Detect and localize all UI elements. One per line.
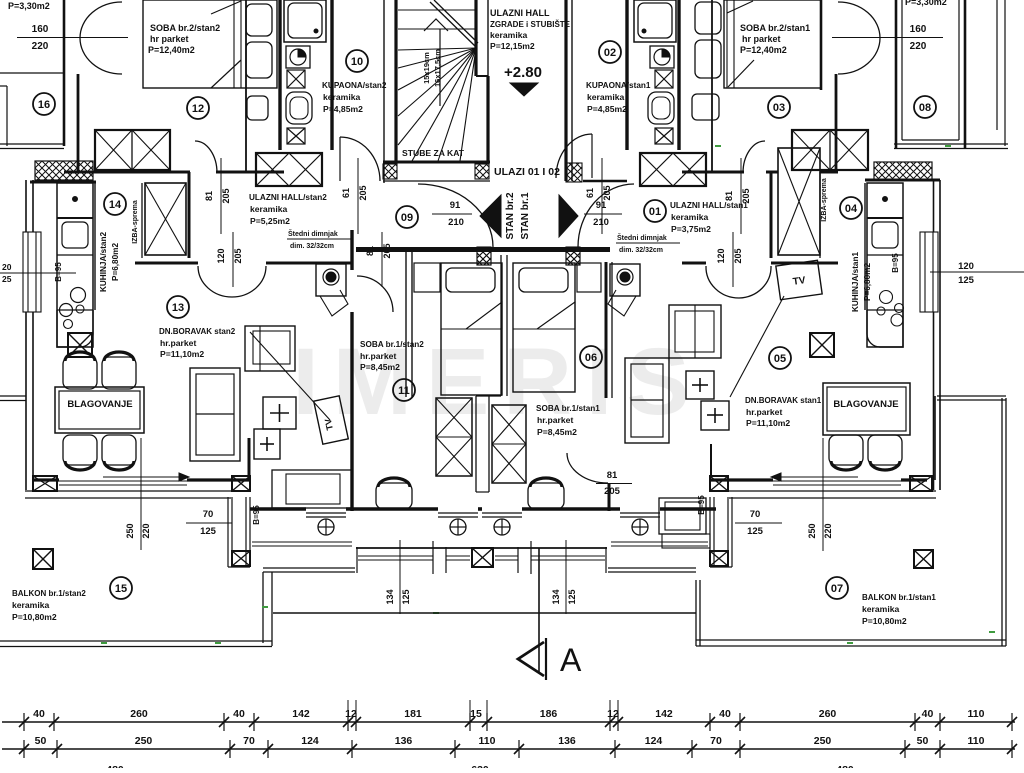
svg-text:20: 20 [2, 262, 12, 272]
svg-text:205: 205 [233, 248, 243, 263]
svg-text:250: 250 [125, 523, 135, 538]
svg-text:06: 06 [585, 352, 597, 364]
svg-text:keramika: keramika [250, 204, 287, 214]
svg-text:91: 91 [596, 200, 607, 211]
svg-text:40: 40 [33, 708, 45, 720]
svg-text:ULAZNI HALL/stan1: ULAZNI HALL/stan1 [670, 201, 748, 210]
svg-text:P=11,10m2: P=11,10m2 [160, 349, 204, 359]
svg-text:120: 120 [958, 261, 974, 272]
svg-text:P=10,80m2: P=10,80m2 [12, 612, 57, 622]
svg-text:40: 40 [922, 708, 934, 720]
svg-text:KUHINJA/stan2: KUHINJA/stan2 [99, 232, 108, 293]
svg-text:ULAZNI HALL: ULAZNI HALL [490, 8, 550, 18]
svg-text:dim. 32/32cm: dim. 32/32cm [290, 243, 334, 250]
svg-text:DN.BORAVAK stan2: DN.BORAVAK stan2 [159, 327, 236, 336]
svg-text:Štedni dimnjak: Štedni dimnjak [617, 233, 667, 242]
svg-text:KUHINJA/stan1: KUHINJA/stan1 [851, 252, 860, 313]
svg-text:205: 205 [358, 185, 368, 200]
svg-text:210: 210 [448, 217, 464, 228]
svg-text:15: 15 [470, 708, 482, 720]
svg-text:110: 110 [479, 735, 496, 747]
svg-text:hr.parket: hr.parket [160, 338, 196, 348]
svg-text:70: 70 [243, 735, 255, 747]
svg-text:15x19cm: 15x19cm [422, 52, 431, 84]
svg-text:250: 250 [135, 735, 153, 747]
svg-text:hr parket: hr parket [150, 34, 189, 44]
svg-text:B=95: B=95 [891, 253, 900, 273]
svg-text:SOBA br.2/stan2: SOBA br.2/stan2 [150, 23, 220, 33]
svg-text:125: 125 [958, 275, 975, 286]
svg-text:SOBA br.1/stan2: SOBA br.1/stan2 [360, 340, 424, 349]
svg-text:P=5,25m2: P=5,25m2 [250, 216, 290, 226]
svg-text:BALKON br.1/stan2: BALKON br.1/stan2 [12, 589, 86, 598]
svg-text:01: 01 [649, 206, 661, 218]
svg-text:91: 91 [450, 200, 461, 211]
svg-text:08: 08 [919, 102, 931, 114]
svg-text:134: 134 [385, 589, 395, 604]
svg-text:61: 61 [341, 188, 351, 198]
svg-text:61: 61 [585, 188, 595, 198]
svg-text:16x17,5cm: 16x17,5cm [433, 49, 442, 87]
svg-text:205: 205 [602, 185, 612, 200]
svg-text:181: 181 [404, 708, 422, 720]
svg-text:260: 260 [819, 708, 837, 720]
svg-text:250: 250 [807, 523, 817, 538]
svg-text:hr.parket: hr.parket [746, 407, 782, 417]
svg-text:P=6,80m2: P=6,80m2 [111, 243, 120, 281]
svg-text:40: 40 [719, 708, 731, 720]
svg-text:250: 250 [814, 735, 832, 747]
svg-text:STUBE ZA KAT: STUBE ZA KAT [402, 148, 465, 158]
svg-text:70: 70 [750, 509, 761, 520]
svg-text:P=8,45m2: P=8,45m2 [537, 427, 577, 437]
svg-text:09: 09 [401, 212, 413, 224]
svg-text:P=4,85m2: P=4,85m2 [587, 104, 627, 114]
svg-text:136: 136 [395, 735, 413, 747]
svg-text:124: 124 [645, 735, 663, 747]
svg-text:07: 07 [831, 583, 843, 595]
svg-text:12: 12 [192, 103, 204, 115]
svg-text:220: 220 [32, 41, 49, 52]
svg-text:50: 50 [917, 735, 929, 747]
svg-text:P=11,10m2: P=11,10m2 [746, 418, 790, 428]
svg-text:IMERIS: IMERIS [292, 329, 703, 435]
svg-text:186: 186 [540, 708, 558, 720]
svg-text:205: 205 [221, 188, 231, 203]
svg-text:P=12,15m2: P=12,15m2 [490, 41, 535, 51]
svg-text:205: 205 [733, 248, 743, 263]
svg-text:keramika: keramika [323, 92, 360, 102]
svg-text:125: 125 [747, 526, 764, 537]
svg-text:14: 14 [109, 199, 122, 211]
svg-text:P=3,75m2: P=3,75m2 [671, 224, 711, 234]
svg-text:134: 134 [551, 589, 561, 604]
svg-text:BLAGOVANJE: BLAGOVANJE [833, 399, 898, 410]
svg-text:IZBA-sprema: IZBA-sprema [821, 178, 828, 222]
svg-text:keramika: keramika [490, 30, 527, 40]
svg-text:13: 13 [172, 302, 184, 314]
svg-text:40: 40 [233, 708, 245, 720]
svg-text:03: 03 [773, 102, 785, 114]
svg-text:11: 11 [398, 385, 410, 397]
svg-text:P=4,85m2: P=4,85m2 [323, 104, 363, 114]
svg-text:P=12,40m2: P=12,40m2 [740, 45, 787, 55]
svg-text:124: 124 [301, 735, 319, 747]
svg-text:ULAZI 01 I 02: ULAZI 01 I 02 [494, 166, 560, 178]
svg-text:BLAGOVANJE: BLAGOVANJE [67, 399, 132, 410]
svg-text:110: 110 [968, 708, 985, 720]
svg-text:70: 70 [203, 509, 214, 520]
svg-text:keramika: keramika [587, 92, 624, 102]
svg-text:160: 160 [32, 24, 49, 35]
svg-text:B=95: B=95 [252, 505, 261, 525]
svg-text:B=95: B=95 [54, 262, 63, 282]
svg-text:120: 120 [716, 248, 726, 263]
svg-text:125: 125 [401, 589, 411, 604]
svg-text:hr.parket: hr.parket [537, 415, 573, 425]
svg-text:dim. 32/32cm: dim. 32/32cm [619, 247, 663, 254]
svg-text:630: 630 [471, 764, 489, 768]
svg-text:TV: TV [792, 275, 807, 288]
svg-text:81: 81 [204, 191, 214, 201]
svg-text:16: 16 [38, 99, 50, 111]
svg-text:10: 10 [351, 56, 363, 68]
svg-text:210: 210 [593, 217, 609, 228]
svg-text:110: 110 [968, 735, 985, 747]
svg-text:136: 136 [558, 735, 576, 747]
svg-text:keramika: keramika [671, 212, 708, 222]
svg-text:DN.BORAVAK stan1: DN.BORAVAK stan1 [745, 396, 822, 405]
svg-text:125: 125 [200, 526, 217, 537]
svg-text:STAN br.2: STAN br.2 [505, 192, 516, 239]
svg-text:480: 480 [836, 764, 854, 768]
svg-text:P=6,80m2: P=6,80m2 [863, 263, 872, 301]
svg-text:120: 120 [216, 248, 226, 263]
svg-text:70: 70 [710, 735, 722, 747]
svg-text:KUPAONA/stan2: KUPAONA/stan2 [322, 81, 387, 90]
svg-text:ZGRADE i STUBIŠTE: ZGRADE i STUBIŠTE [490, 20, 571, 29]
svg-text:142: 142 [655, 708, 673, 720]
svg-text:P=3,30m2: P=3,30m2 [905, 0, 947, 7]
svg-text:B=95: B=95 [697, 495, 706, 515]
svg-text:81: 81 [724, 191, 734, 201]
svg-text:hr.parket: hr.parket [360, 351, 396, 361]
svg-text:IZBA-sprema: IZBA-sprema [132, 200, 139, 244]
svg-text:480: 480 [106, 764, 124, 768]
svg-text:keramika: keramika [12, 600, 49, 610]
svg-text:P=3,30m2: P=3,30m2 [8, 1, 50, 11]
svg-text:+2.80: +2.80 [504, 64, 542, 81]
svg-text:142: 142 [292, 708, 310, 720]
svg-text:A: A [560, 642, 582, 678]
svg-text:STAN br.1: STAN br.1 [520, 192, 531, 239]
svg-text:SOBA br.2/stan1: SOBA br.2/stan1 [740, 23, 810, 33]
svg-text:P=12,40m2: P=12,40m2 [148, 45, 195, 55]
svg-text:12: 12 [345, 708, 357, 720]
svg-text:220: 220 [910, 41, 927, 52]
svg-text:125: 125 [567, 589, 577, 604]
svg-text:220: 220 [823, 523, 833, 538]
svg-text:205: 205 [604, 486, 621, 497]
svg-text:15: 15 [115, 583, 127, 595]
svg-text:160: 160 [910, 24, 927, 35]
svg-text:P=10,80m2: P=10,80m2 [862, 616, 907, 626]
svg-text:02: 02 [604, 47, 616, 59]
svg-text:12: 12 [607, 708, 619, 720]
svg-text:81: 81 [607, 470, 618, 481]
svg-text:Štedni dimnjak: Štedni dimnjak [288, 229, 338, 238]
svg-text:P=8,45m2: P=8,45m2 [360, 362, 400, 372]
svg-text:keramika: keramika [862, 604, 899, 614]
svg-text:50: 50 [35, 735, 47, 747]
svg-text:260: 260 [130, 708, 148, 720]
svg-text:hr parket: hr parket [742, 34, 781, 44]
svg-text:04: 04 [845, 203, 858, 215]
svg-text:25: 25 [2, 274, 12, 284]
svg-text:SOBA br.1/stan1: SOBA br.1/stan1 [536, 404, 600, 413]
svg-text:KUPAONA/stan1: KUPAONA/stan1 [586, 81, 651, 90]
svg-text:BALKON br.1/stan1: BALKON br.1/stan1 [862, 593, 936, 602]
svg-text:220: 220 [141, 523, 151, 538]
svg-text:ULAZNI HALL/stan2: ULAZNI HALL/stan2 [249, 193, 327, 202]
svg-text:05: 05 [774, 353, 786, 365]
